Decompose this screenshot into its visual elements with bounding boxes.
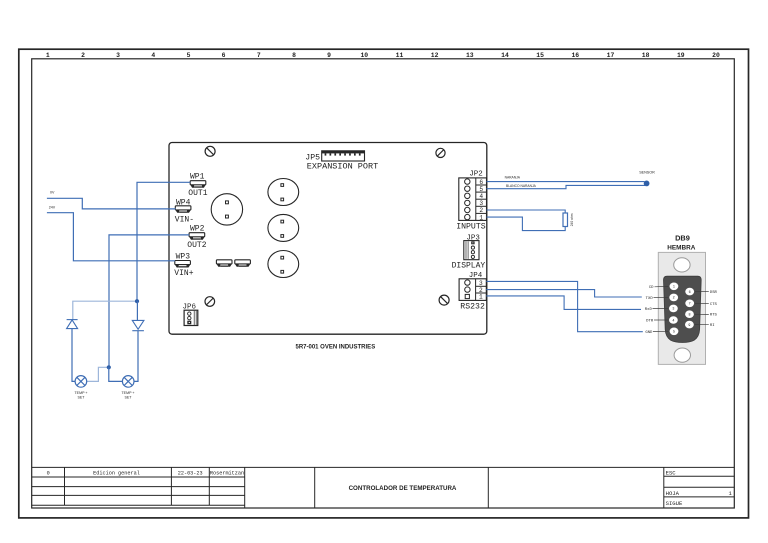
wire JP4 pin1 to DB9 RxD [486,296,641,310]
wire JP2 pin5 to sensor [487,185,646,188]
svg-text:TXD: TXD [646,297,654,301]
diode D1 (pointing up) [67,320,78,329]
svg-text:VIN-: VIN- [175,215,194,224]
junction node 1 [135,299,139,303]
svg-text:Rosermitzan: Rosermitzan [210,470,244,476]
svg-text:17: 17 [607,52,615,59]
lamp L1 [75,376,87,388]
svg-text:WP2: WP2 [190,224,205,233]
svg-text:GND: GND [645,331,653,335]
svg-text:RI: RI [710,324,715,328]
sensor node [644,181,650,187]
connector JP6 [183,303,198,325]
svg-text:3: 3 [479,200,483,207]
svg-text:NARANJA: NARANJA [505,176,521,180]
svg-text:16: 16 [571,52,579,59]
svg-text:7: 7 [689,303,691,307]
pin label lines [653,286,709,331]
PCB board outline [169,143,487,335]
svg-text:9: 9 [688,324,690,328]
svg-text:5R7-001 OVEN INDUSTRIES: 5R7-001 OVEN INDUSTRIES [296,345,376,351]
resistor R1 [563,213,568,227]
svg-text:HOJA: HOJA [666,490,680,497]
svg-text:9: 9 [327,52,331,59]
svg-text:8: 8 [688,314,690,318]
svg-text:13: 13 [466,52,474,59]
wire JP4 pin2 to DB9 TXD [486,290,642,297]
svg-text:SIGUE: SIGUE [666,500,683,507]
svg-text:CONTROLADOR DE TEMPERATURA: CONTROLADOR DE TEMPERATURA [349,485,457,492]
svg-text:1: 1 [479,214,483,221]
svg-text:19: 19 [677,52,685,59]
connector JP2 / INPUTS [456,171,486,232]
svg-text:0: 0 [47,470,50,476]
wire JP2 pin1 to resistor bottom [487,217,566,231]
svg-text:4: 4 [479,193,483,200]
capacitor C2 [268,179,299,206]
svg-text:12: 12 [431,52,439,59]
spade terminal T2 (center) [235,260,251,267]
title block texts [47,470,733,508]
svg-text:10: 10 [360,52,368,59]
lamp L2 [122,376,134,388]
ruler numbers 1-20 [46,52,720,59]
connector DB9 HEMBRA [645,233,718,364]
svg-text:1: 1 [673,286,675,290]
svg-text:Edicion general: Edicion general [93,470,140,476]
svg-text:4: 4 [151,52,155,59]
svg-text:DSR: DSR [710,291,718,295]
svg-text:CTS: CTS [710,303,718,307]
branch wire junction to lamp L1 (light) [87,367,109,381]
svg-text:4: 4 [672,319,674,323]
junction node 2 [107,365,111,369]
svg-text:SET: SET [125,396,133,400]
svg-text:DTR: DTR [646,319,654,323]
svg-text:INPUTS: INPUTS [456,222,486,231]
svg-text:2: 2 [81,52,85,59]
connector JP5 expansion port [305,151,378,172]
svg-text:HEMBRA: HEMBRA [667,245,695,252]
svg-text:3: 3 [672,308,674,312]
svg-text:22-03-23: 22-03-23 [178,470,203,476]
wire WP1/OUT1 down to diode branch [137,182,190,301]
wire JP2 pin2 to resistor [487,210,566,213]
svg-text:2: 2 [673,297,675,301]
svg-text:OUT1: OUT1 [188,189,207,198]
svg-text:15: 15 [536,52,544,59]
svg-text:20: 20 [712,52,720,59]
svg-text:5: 5 [673,331,675,335]
svg-text:CD: CD [649,286,654,290]
svg-text:BLANCO NARANJA: BLANCO NARANJA [506,184,537,188]
svg-text:6: 6 [689,291,691,295]
svg-text:14: 14 [501,52,509,59]
svg-text:5: 5 [187,52,191,59]
capacitor C4 [268,251,299,278]
svg-text:RS232: RS232 [460,302,485,311]
svg-text:EXPANSION PORT: EXPANSION PORT [307,162,378,172]
wire WP2/OUT2 down to lamp branch [109,235,189,367]
screw hole top-left [205,146,215,156]
wire D1 to lamp L1 [72,329,75,382]
title block [32,467,735,508]
connector JP4 / RS232 [459,272,486,311]
terminal WP3 / VIN+ [174,253,193,278]
terminal WP2 / OUT2 [187,224,206,249]
svg-text:11: 11 [396,52,404,59]
svg-text:ESC: ESC [666,470,677,477]
svg-text:OUT2: OUT2 [187,241,206,250]
svg-text:8: 8 [292,52,296,59]
svg-text:7: 7 [257,52,261,59]
svg-text:SET: SET [78,396,86,400]
svg-text:0V: 0V [50,190,55,194]
spade terminal T1 (center) [216,260,232,267]
wire JP2 pin6 to sensor [487,182,647,184]
wire D2 to lamp L2 [134,331,138,382]
svg-text:5: 5 [479,186,483,193]
terminal WP4 / VIN- [175,198,194,224]
wire junction1 to diode D2 [136,301,138,320]
svg-text:6: 6 [479,179,483,186]
branch wire to diode D1 (light) [73,301,137,319]
screw hole bottom-right [439,295,449,305]
svg-text:RTS: RTS [710,314,718,318]
svg-text:TEMP +: TEMP + [74,391,87,395]
svg-text:SENSOR: SENSOR [639,170,655,174]
svg-text:DISPLAY: DISPLAY [452,261,486,270]
screw hole bottom-left [205,297,215,307]
svg-text:6: 6 [222,52,226,59]
connector JP3 / DISPLAY [452,234,486,270]
capacitor C3 [268,214,299,241]
svg-text:RxD: RxD [645,308,653,312]
svg-text:TEMP +: TEMP + [121,391,134,395]
svg-text:3: 3 [116,52,120,59]
screw hole top-right [436,148,445,157]
inner drawing border [32,59,735,508]
svg-text:VIN+: VIN+ [174,269,193,278]
capacitor C1 [211,194,242,225]
svg-text:2: 2 [479,207,483,214]
svg-text:DB9: DB9 [675,233,690,242]
svg-text:18: 18 [642,52,650,59]
terminal WP1 / OUT1 [188,173,207,198]
wire junction2 to lamp L2 [109,367,123,381]
svg-text:1: 1 [479,294,483,301]
svg-text:1: 1 [46,52,50,59]
diode D2 (pointing down) [132,320,144,330]
svg-text:24V: 24V [49,205,56,209]
wire JP4 pin3 to DB9 GND [486,281,643,331]
svg-text:240 ohm: 240 ohm [570,213,574,226]
